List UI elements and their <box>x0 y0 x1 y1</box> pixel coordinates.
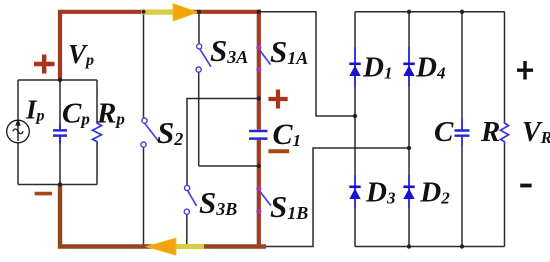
wire bridge right leg <box>408 12 410 247</box>
switch S3A <box>200 49 211 67</box>
wire top node Vp <box>18 79 97 81</box>
wire thick brown bottom path <box>60 185 266 247</box>
sign - (Vp) <box>35 192 52 196</box>
diode D4 <box>408 47 410 87</box>
junction D2 bottom rail <box>407 244 411 248</box>
junction Vp- node <box>58 182 62 186</box>
sign - (VR) <box>520 184 531 188</box>
wire C1-top to S3B <box>187 99 259 247</box>
junction Vp+ node <box>58 78 62 82</box>
capacitor Cp <box>59 124 61 145</box>
wire S3A branch <box>198 12 200 166</box>
diode D3 <box>354 175 356 208</box>
capacitor C (filter) <box>461 119 463 147</box>
junction S3A/top rail <box>197 10 201 14</box>
wire S3A to C1-bottom <box>199 165 259 167</box>
sign + (VR) <box>517 61 533 80</box>
sign - (C1) <box>268 149 289 153</box>
svg-text:C: C <box>434 116 454 148</box>
diode D2 <box>408 175 410 208</box>
junction bridge input 2 <box>407 146 411 150</box>
junction C top rail <box>460 10 464 14</box>
arrow current top (rightward) <box>141 10 178 15</box>
wire S2 branch <box>143 12 145 247</box>
wire Cp branch <box>59 80 61 185</box>
capacitor C1 <box>249 131 268 139</box>
junction D4 top rail <box>407 10 411 14</box>
wire thick red top path <box>60 12 261 80</box>
sign + (Vp) <box>34 55 55 74</box>
wire bridge top rail <box>355 11 505 13</box>
diode D1 <box>354 47 356 87</box>
wire Ip branch <box>17 80 19 185</box>
junction S2/top rail <box>142 10 146 14</box>
switch S3B <box>188 191 197 206</box>
arrow current bottom (leftward) <box>172 244 204 249</box>
junction C1 top node <box>257 96 261 100</box>
junction S1A/top rail <box>257 10 261 14</box>
current source Ip <box>7 120 30 143</box>
wire Rp branch <box>96 80 98 185</box>
wire bridge bottom rail <box>355 246 505 248</box>
junction bridge input 1 <box>353 114 357 118</box>
wire bottom rail to bridge input 2 <box>266 148 409 247</box>
resistor Rp <box>93 121 102 144</box>
switch S2 <box>145 123 158 140</box>
wire bridge left leg <box>354 12 356 247</box>
wire C filter branch <box>461 12 463 247</box>
resistor R (load) <box>501 121 509 144</box>
svg-text:R: R <box>480 116 500 148</box>
junction C1 bottom node <box>257 164 261 168</box>
wire top rail to bridge input 1 <box>260 12 355 116</box>
wire R load branch <box>504 12 506 247</box>
switch S1B (closed, on red path) <box>260 191 271 205</box>
switch S1A (closed, on red path) <box>260 50 271 65</box>
wire thick red S1/C1 leg <box>257 10 261 247</box>
wire bottom node Vp <box>18 184 97 186</box>
junction C bottom rail <box>460 244 464 248</box>
sign + (C1) <box>268 90 287 109</box>
